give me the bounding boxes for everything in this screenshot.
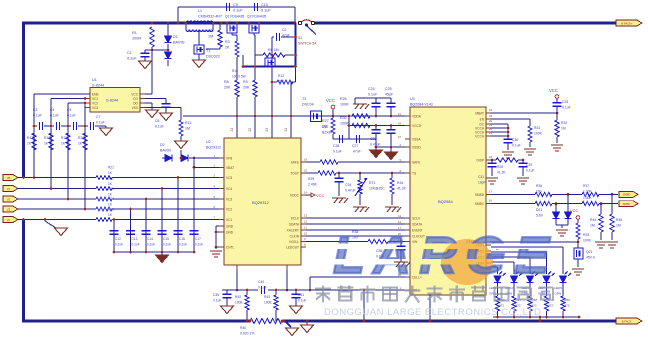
svg-text:DONGGUAN LARGE ELECTRONICS CO.: DONGGUAN LARGE ELECTRONICS CO.,LTD — [324, 307, 541, 318]
wire ground drop x364 — [363, 290, 365, 321]
resistor R19 1K — [66, 133, 70, 150]
svg-text:SMBC: SMBC — [623, 202, 631, 206]
wire PACK+ top rail right of switch — [315, 22, 609, 25]
svg-text:47uF: 47uF — [282, 34, 290, 38]
svg-text:2.49K: 2.49K — [308, 183, 318, 187]
svg-text:VC5: VC5 — [226, 176, 232, 180]
capacitor C13 0.1uF — [126, 230, 135, 232]
svg-text:0.1uF: 0.1uF — [163, 243, 171, 247]
wire left border vertical upper (B+ to VB port row) — [22, 22, 25, 178]
svg-text:R26: R26 — [340, 97, 347, 101]
svg-text:R30: R30 — [340, 116, 347, 120]
svg-text:5.6V: 5.6V — [536, 214, 544, 218]
capacitor C14 0.1uF — [142, 230, 151, 232]
svg-text:1M: 1M — [208, 35, 213, 39]
svg-text:T3: T3 — [302, 97, 306, 101]
svg-text:20K: 20K — [278, 80, 285, 84]
U3 left pin stubs — [405, 115, 410, 117]
svg-text:C17: C17 — [195, 237, 201, 241]
LED D17 — [560, 276, 567, 283]
svg-text:0.1uF: 0.1uF — [298, 299, 306, 303]
svg-text:0.1uF: 0.1uF — [96, 121, 105, 125]
svg-text:VCC: VCC — [549, 88, 558, 93]
capacitor C34 0.47uF — [338, 173, 340, 178]
ground below T1 — [193, 60, 206, 68]
svg-text:VCC: VCC — [570, 208, 579, 213]
resistor R45 1M — [611, 194, 613, 214]
svg-text:R9: R9 — [243, 80, 248, 84]
op-amp U1 S-8244 protection IC — [90, 88, 140, 113]
svg-text:R37: R37 — [583, 184, 589, 188]
resistor R2 1M — [219, 23, 221, 30]
svg-text:U3: U3 — [410, 97, 415, 101]
svg-text:Q2 FDS4435: Q2 FDS4435 — [247, 15, 266, 19]
wire cell row V3 — [18, 208, 96, 210]
svg-text:0.47uF: 0.47uF — [345, 189, 356, 193]
svg-text:14: 14 — [304, 191, 308, 195]
svg-text:0.1uF: 0.1uF — [261, 9, 271, 13]
svg-text:0.1uF: 0.1uF — [67, 114, 76, 118]
svg-text:100E: 100E — [264, 301, 273, 305]
svg-text:C10: C10 — [261, 3, 268, 7]
ground under C29 — [517, 177, 529, 179]
svg-text:VCELL: VCELL — [289, 240, 299, 244]
svg-text:R20: R20 — [78, 136, 84, 140]
capacitor C25 45pF — [390, 98, 392, 103]
svg-text:17: 17 — [489, 189, 493, 193]
U1 left pin stubs — [85, 93, 90, 95]
svg-text:LEDOUT: LEDOUT — [286, 246, 299, 250]
svg-text:C9: C9 — [233, 3, 238, 7]
svg-text:472: 472 — [565, 304, 570, 308]
wire DISP row y160 — [491, 159, 496, 161]
wire sense row y290 — [222, 289, 258, 291]
svg-text:R43: R43 — [264, 295, 270, 299]
ground slant at VC port — [45, 221, 56, 228]
port VC — [3, 217, 18, 223]
svg-text:0.1uF: 0.1uF — [127, 57, 137, 61]
wire SMBus SDATA — [306, 223, 410, 225]
capacitor C9 0.1uF — [225, 3, 227, 11]
svg-text:VCCD: VCCD — [412, 124, 422, 128]
node R33/Q21/LED row1 — [577, 241, 580, 244]
svg-text:14: 14 — [398, 220, 402, 224]
svg-text:R32: R32 — [561, 121, 567, 125]
resistor R6 1M horizontal — [255, 54, 263, 56]
svg-text:DO: DO — [133, 102, 138, 106]
svg-text:16: 16 — [304, 158, 308, 162]
svg-text:0.1uF: 0.1uF — [233, 9, 243, 13]
svg-text:XALERT: XALERT — [287, 229, 299, 233]
wire cell row V2 — [18, 198, 96, 200]
resistor R20 1K — [83, 133, 87, 150]
port SMBD — [619, 192, 638, 198]
svg-text:15: 15 — [304, 169, 308, 173]
svg-text:R40: R40 — [240, 326, 246, 330]
capacitor C29 0.1uF — [522, 159, 525, 162]
svg-text:R22: R22 — [108, 177, 114, 181]
capacitor C33 0.1uF — [556, 98, 558, 103]
resistor R40 sense 0.020 1% — [250, 318, 282, 323]
svg-text:SAFE: SAFE — [412, 161, 420, 165]
op-amp U2 BQ29312 analog front end — [224, 138, 301, 265]
svg-text:0.1uF: 0.1uF — [213, 299, 221, 303]
svg-text:C8: C8 — [155, 119, 159, 123]
svg-text:T1: T1 — [206, 49, 210, 53]
svg-text:R44: R44 — [590, 218, 596, 222]
svg-text:R1: R1 — [132, 31, 137, 35]
svg-text:18: 18 — [489, 155, 493, 159]
svg-text:R19: R19 — [61, 136, 67, 140]
diode D2 right — [181, 155, 188, 162]
svg-text:C28: C28 — [370, 137, 376, 141]
LED D13 — [494, 276, 501, 283]
ground stub U1 DO — [145, 102, 152, 104]
svg-text:R42: R42 — [235, 295, 241, 299]
svg-text:100K: 100K — [534, 132, 543, 136]
ground under RT1 — [353, 206, 367, 208]
svg-text:SMBD: SMBD — [623, 193, 631, 197]
svg-text:C13: C13 — [132, 237, 138, 241]
gate drive column x255 — [254, 34, 255, 36]
svg-text:10K@25C: 10K@25C — [369, 187, 385, 191]
op-amp U3 BQ2084 gas gauge — [410, 107, 486, 295]
svg-text:VDDA: VDDA — [412, 115, 422, 119]
wire VCCA pins to C30 — [491, 123, 508, 125]
chassis ground above R26 — [353, 103, 367, 105]
svg-text:11: 11 — [398, 214, 401, 218]
ground under C34 — [332, 197, 346, 199]
svg-text:100R: 100R — [132, 37, 141, 41]
resistor R36 100 — [535, 192, 552, 196]
VDD power arrow at VDDC — [306, 194, 311, 196]
svg-text:CO: CO — [133, 97, 138, 101]
svg-text:V1: V1 — [7, 187, 11, 191]
ground U2 GND — [215, 247, 217, 249]
svg-text:C31: C31 — [478, 175, 484, 179]
svg-text:1M: 1M — [590, 224, 595, 228]
wire U2 SRN pin down — [286, 270, 288, 290]
wire VCELL to VIN — [306, 241, 368, 243]
resistor R28 41.2K — [496, 158, 518, 162]
thick gate bus — [243, 65, 296, 67]
svg-text:1.00K: 1.00K — [583, 196, 592, 200]
wire LED pin rows — [491, 266, 498, 268]
svg-text:100 0.5W: 100 0.5W — [232, 75, 246, 79]
svg-text:C7: C7 — [96, 115, 100, 119]
resistor R31 100K — [528, 126, 532, 142]
svg-text:SCLK: SCLK — [412, 217, 421, 221]
capacitor chain C3 — [34, 125, 37, 127]
thick vertical x295/296 — [294, 23, 296, 67]
wire VSS row y147 — [376, 146, 410, 148]
resistor R37 1.00K — [582, 192, 599, 196]
resistor R34v 41.2K — [391, 173, 393, 178]
resistor R12 20K horizontal — [272, 81, 277, 83]
svg-text:SMBC: SMBC — [475, 202, 485, 206]
resistor R27 1M vertical — [332, 116, 334, 118]
ground VSS triangle — [370, 150, 383, 158]
svg-text:VFB: VFB — [226, 157, 232, 161]
svg-text:R12: R12 — [278, 74, 284, 78]
capacitor chain C4 — [51, 125, 54, 127]
svg-text:TS: TS — [412, 172, 416, 176]
watermark Chinese company name — [315, 287, 331, 289]
svg-text:C15: C15 — [163, 237, 169, 241]
svg-text:VC3: VC3 — [226, 198, 232, 202]
svg-text:R28: R28 — [497, 165, 503, 169]
svg-text:S-8244: S-8244 — [106, 99, 118, 103]
svg-text:VSS: VSS — [132, 106, 138, 110]
capacitor C2 47uF — [272, 36, 274, 38]
ground under R45 — [606, 241, 618, 243]
node border-row junctions — [22, 176, 25, 179]
resistor R49 472 — [544, 296, 548, 311]
svg-text:VB: VB — [7, 176, 11, 180]
wire MBAT row y113 — [491, 112, 557, 114]
svg-text:ENB: ENB — [92, 93, 99, 97]
ground under R44 — [595, 241, 607, 243]
svg-text:23: 23 — [489, 114, 493, 118]
ground under Q21 — [577, 259, 579, 267]
transistor Q2 FDS4435 on rail — [249, 24, 259, 34]
svg-text:VSSD: VSSD — [412, 146, 421, 150]
ground at C26/C27 right — [375, 139, 377, 147]
wire U1 VCC to R1 column — [145, 93, 152, 95]
gate column x272 with C2 47uF — [271, 37, 273, 138]
U2 bottom pin stubs — [236, 265, 238, 270]
svg-text:LARGE: LARGE — [333, 227, 558, 285]
svg-text:21: 21 — [398, 112, 402, 116]
resistor R23 1K — [96, 197, 112, 201]
resistor R50 472 — [561, 296, 565, 311]
wire U3 bottom GND — [429, 295, 431, 321]
port V3 — [3, 206, 18, 212]
wire column x291 to U2 — [290, 82, 292, 138]
ground under C38 — [394, 261, 408, 263]
svg-text:0.1uF: 0.1uF — [132, 243, 140, 247]
wire left border vertical lower (VC- to PACK-) — [22, 220, 25, 322]
capacitor C28 pair to VSS — [375, 126, 377, 130]
wire D2 midpoint up to R11 ground — [180, 150, 182, 158]
svg-text:CMD4532-4R7: CMD4532-4R7 — [198, 15, 222, 19]
svg-text:VC: VC — [7, 218, 11, 222]
svg-text:S-8244: S-8244 — [92, 84, 104, 88]
svg-text:20K: 20K — [243, 86, 250, 90]
svg-text:EN: EN — [480, 118, 485, 122]
svg-text:Q1 FDS4435: Q1 FDS4435 — [225, 15, 244, 19]
svg-text:U2: U2 — [206, 140, 211, 144]
svg-text:45V-0: 45V-0 — [586, 256, 595, 260]
svg-text:RT1: RT1 — [369, 181, 375, 185]
svg-text:VCC: VCC — [131, 93, 138, 97]
resistor R48 472 — [528, 296, 532, 311]
resistor R17 1K — [32, 133, 36, 150]
wire VCC bus y116 — [183, 115, 410, 117]
svg-text:C1: C1 — [127, 51, 132, 55]
wire VBAT row — [194, 166, 224, 168]
wire CELL+ row y277 — [310, 276, 410, 278]
svg-text:R6 1M: R6 1M — [268, 48, 279, 52]
capacitor chain C5 — [68, 125, 71, 127]
capacitor C24 0.1uF — [375, 98, 377, 103]
svg-text:R50: R50 — [565, 298, 571, 302]
svg-text:V3: V3 — [7, 207, 11, 211]
svg-text:R34: R34 — [397, 181, 403, 185]
svg-text:C29: C29 — [526, 163, 532, 167]
wire cell row VB — [18, 177, 96, 179]
svg-text:R33: R33 — [583, 233, 589, 237]
resistor R18 1K — [49, 133, 53, 150]
svg-text:VBAT: VBAT — [226, 166, 234, 170]
resistor R1 100R — [150, 27, 154, 47]
svg-text:0.1uF: 0.1uF — [333, 150, 342, 154]
diode D1 lower half — [167, 44, 169, 52]
LED D14 — [511, 276, 518, 283]
svg-text:R45: R45 — [616, 218, 622, 222]
svg-text:B PACK+: B PACK+ — [621, 21, 633, 25]
wire to PACK+ port — [608, 22, 616, 25]
svg-text:VC1: VC1 — [226, 218, 232, 222]
ground under C41 — [290, 306, 303, 314]
svg-text:R11: R11 — [185, 121, 191, 125]
svg-text:D1: D1 — [173, 35, 178, 39]
svg-text:1.00K: 1.00K — [583, 190, 592, 194]
svg-text:V2: V2 — [7, 197, 11, 201]
svg-text:C14: C14 — [147, 237, 153, 241]
wire VCCD row y125.5 — [349, 125, 410, 127]
svg-text:VCC: VCC — [316, 193, 325, 198]
watermark logo LARGE — [441, 239, 493, 285]
svg-text:24: 24 — [398, 122, 402, 126]
svg-text:0.1uF: 0.1uF — [512, 144, 521, 148]
svg-text:C3: C3 — [33, 108, 37, 112]
port P1 PACK+ — [616, 20, 642, 26]
wire cell row V1 — [18, 188, 96, 190]
capacitor C26 0.1uF — [338, 135, 340, 143]
svg-text:LED5: LED5 — [555, 286, 563, 290]
svg-text:0.1uF: 0.1uF — [368, 93, 378, 97]
svg-text:17: 17 — [398, 226, 402, 230]
wire U1 CO stub — [145, 98, 166, 100]
resistor R21 1K — [96, 175, 112, 179]
svg-text:100E: 100E — [235, 301, 244, 305]
svg-text:R2: R2 — [208, 29, 213, 33]
node U1 column joins — [84, 97, 87, 100]
svg-text:R17: R17 — [27, 136, 33, 140]
wire CELL- row continues — [310, 289, 410, 291]
U3 right pin stubs — [486, 112, 491, 114]
port SMBC — [619, 201, 638, 207]
svg-text:0.1uF: 0.1uF — [147, 243, 155, 247]
svg-text:0.1uF: 0.1uF — [155, 125, 164, 129]
svg-text:GND: GND — [226, 225, 234, 229]
wire lower ladder columns — [177, 178, 179, 236]
svg-text:20K: 20K — [224, 86, 231, 90]
capacitor C17 0.1uF — [190, 230, 199, 232]
svg-text:L1: L1 — [198, 9, 202, 13]
svg-text:U1: U1 — [92, 78, 97, 82]
U2 right pin labels — [301, 161, 306, 163]
switch S1 — [298, 21, 301, 24]
svg-text:45pF: 45pF — [385, 93, 394, 97]
ground VSS triangle 2 — [385, 152, 398, 160]
svg-text:10: 10 — [304, 232, 308, 236]
svg-text:C30: C30 — [512, 138, 518, 142]
wire ladder column x194 from D2 row — [193, 158, 195, 235]
ground under C8 — [160, 113, 173, 121]
svg-text:16: 16 — [489, 199, 493, 203]
ground under R31 — [524, 148, 536, 150]
svg-text:1M: 1M — [561, 127, 566, 131]
resistor R22 1K — [96, 186, 112, 190]
svg-text:R8: R8 — [224, 80, 229, 84]
node upper column joins on rows — [33, 176, 36, 179]
capacitor C30 0.1uF — [504, 138, 513, 140]
svg-text:DSC023: DSC023 — [206, 55, 220, 59]
wire U1 VSS to R11 — [145, 107, 181, 109]
svg-text:S1: S1 — [298, 36, 302, 40]
capacitor C31 10pF — [491, 159, 494, 162]
svg-text:SWITCH 5A: SWITCH 5A — [298, 42, 317, 46]
ground under D21 — [561, 225, 563, 228]
svg-text:24: 24 — [284, 128, 288, 132]
svg-text:VC1: VC1 — [92, 97, 98, 101]
node C1/R1 — [151, 49, 154, 52]
wire SMBC row — [491, 203, 535, 205]
svg-text:0.1uF: 0.1uF — [179, 243, 187, 247]
node cap chain — [33, 125, 36, 128]
svg-text:TOUT: TOUT — [290, 172, 299, 176]
svg-text:BAV99: BAV99 — [160, 149, 171, 153]
svg-text:11: 11 — [304, 226, 307, 230]
ground under C39 — [221, 306, 234, 314]
wire EN row y119 — [491, 118, 530, 120]
svg-text:VDDC: VDDC — [290, 194, 300, 198]
svg-text:BQ2084-V143: BQ2084-V143 — [410, 103, 433, 107]
resistor R42 100K — [246, 290, 248, 295]
node rail junctions — [151, 22, 154, 25]
LED D16 — [543, 276, 550, 283]
svg-text:.47uF: .47uF — [352, 150, 361, 154]
resistor R24 1K — [96, 207, 112, 211]
svg-text:VC4: VC4 — [226, 187, 232, 191]
svg-text:Q21: Q21 — [586, 250, 593, 254]
capacitor C10 0.1uF — [253, 3, 255, 11]
svg-text:1M: 1M — [185, 127, 190, 131]
gate drive column x237 — [232, 34, 237, 36]
svg-text:0.1uF: 0.1uF — [50, 114, 59, 118]
svg-text:1M: 1M — [616, 224, 621, 228]
svg-text:VCC: VCC — [326, 98, 335, 103]
wire U2 GND pins to ground — [216, 225, 219, 227]
svg-text:BAV99: BAV99 — [173, 41, 185, 45]
transistor T3 P-FET on bus — [311, 111, 322, 122]
wire LED bottom bus — [493, 316, 579, 318]
wire U2 SRP pin down — [236, 270, 238, 290]
svg-text:MBAT: MBAT — [475, 112, 484, 116]
wire cell row VC — [18, 219, 96, 221]
svg-text:1K: 1K — [61, 142, 66, 146]
transistor Q21 45V — [574, 248, 583, 259]
svg-text:VCCA: VCCA — [475, 135, 485, 139]
svg-text:SCLK: SCLK — [291, 217, 300, 221]
inductor L1 common-mode choke — [186, 21, 213, 23]
ground kelvin right of sense — [285, 321, 291, 327]
svg-text:C16: C16 — [179, 237, 185, 241]
capacitor C38 0.1uF — [400, 242, 402, 247]
wire to PACK- port — [608, 320, 616, 323]
